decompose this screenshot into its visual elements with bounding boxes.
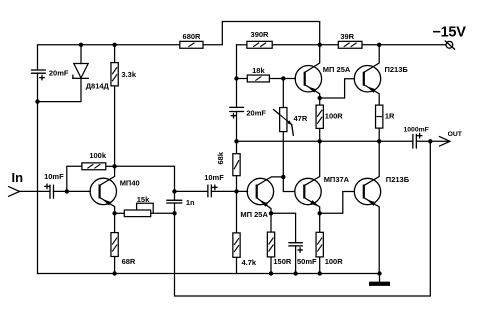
svg-text:50mF: 50mF [297, 257, 317, 266]
svg-text:680R: 680R [183, 32, 202, 41]
svg-text:100R: 100R [325, 257, 344, 266]
svg-text:МП40: МП40 [120, 179, 140, 188]
svg-text:20mF: 20mF [49, 69, 69, 78]
svg-text:15k: 15k [137, 195, 150, 204]
svg-text:П213Б: П213Б [385, 65, 409, 74]
svg-text:4.7k: 4.7k [242, 258, 257, 267]
svg-text:1R: 1R [385, 111, 395, 120]
svg-text:10mF: 10mF [44, 172, 64, 181]
svg-text:МП37А: МП37А [324, 175, 350, 184]
svg-text:−15V: −15V [433, 25, 467, 41]
svg-text:In: In [12, 170, 24, 185]
svg-text:1000mF: 1000mF [404, 127, 429, 134]
svg-text:18k: 18k [252, 66, 265, 75]
svg-text:100R: 100R [325, 111, 344, 120]
svg-text:47R: 47R [294, 114, 308, 123]
svg-text:39R: 39R [340, 32, 354, 41]
svg-text:10mF: 10mF [204, 173, 224, 182]
svg-text:П213Б: П213Б [386, 175, 410, 184]
svg-text:1n: 1n [186, 198, 195, 207]
svg-text:68R: 68R [122, 257, 136, 266]
svg-text:68k: 68k [216, 151, 225, 164]
svg-text:100k: 100k [89, 151, 107, 160]
svg-text:OUT: OUT [448, 131, 463, 138]
svg-text:150R: 150R [273, 257, 292, 266]
svg-text:390R: 390R [251, 30, 270, 39]
svg-text:МП 25А: МП 25А [240, 210, 268, 219]
svg-text:МП 25А: МП 25А [323, 65, 351, 74]
svg-text:3.3k: 3.3k [121, 70, 136, 79]
svg-text:20mF: 20mF [246, 109, 266, 118]
svg-text:Д814Д: Д814Д [86, 82, 110, 91]
